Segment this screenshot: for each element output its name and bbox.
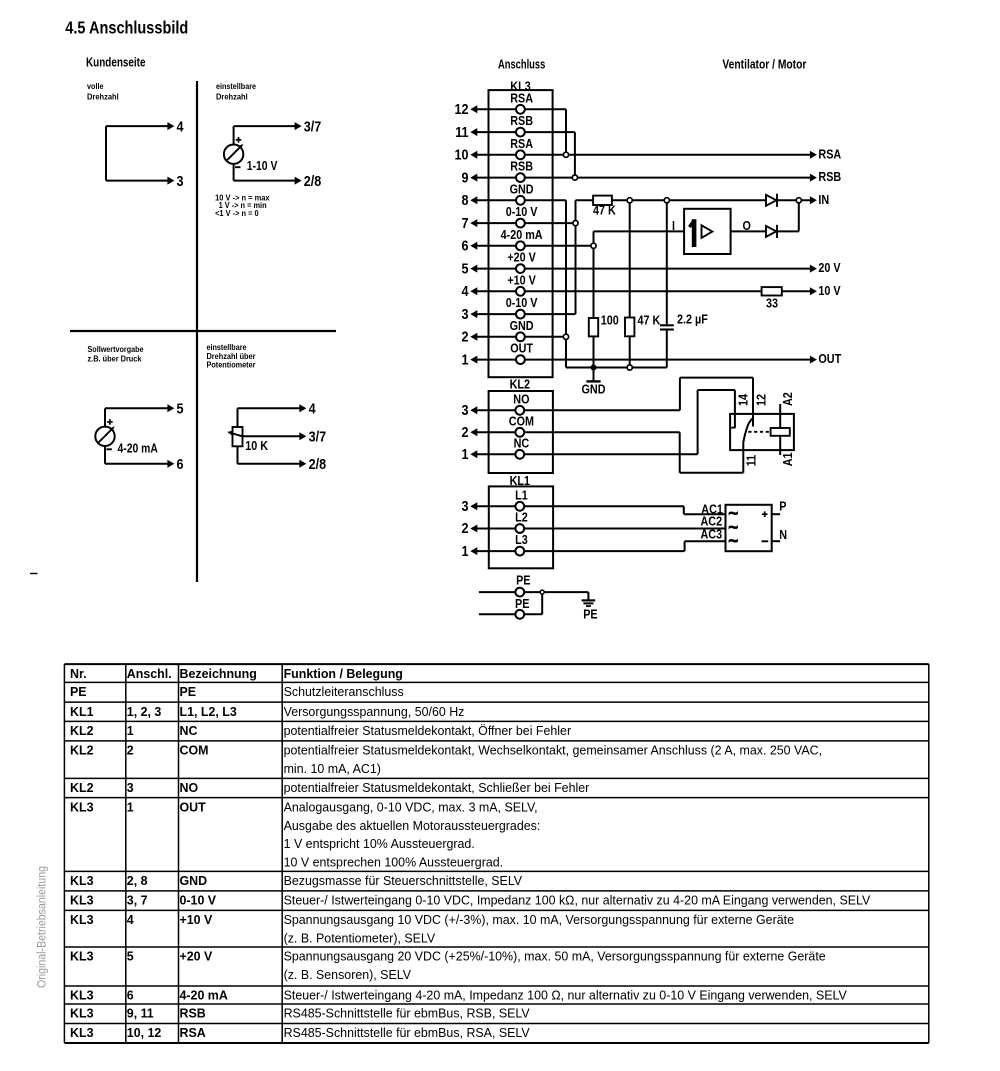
svg-text:Ausgabe des aktuellen Motoraus: Ausgabe des aktuellen Motoraussteuergrad… — [284, 818, 541, 833]
svg-text:+10 V: +10 V — [180, 912, 213, 927]
svg-text:+20 V: +20 V — [507, 250, 536, 265]
svg-text:4: 4 — [177, 118, 185, 135]
svg-text:3: 3 — [462, 402, 469, 419]
svg-text:10, 12: 10, 12 — [127, 1025, 162, 1040]
svg-text:2, 8: 2, 8 — [127, 873, 148, 888]
svg-text:KL3: KL3 — [70, 988, 94, 1003]
svg-text:4: 4 — [309, 401, 317, 418]
svg-text:3/7: 3/7 — [304, 118, 322, 135]
svg-text:KL3: KL3 — [510, 78, 530, 93]
svg-text:5: 5 — [177, 401, 184, 418]
svg-text:GND: GND — [510, 181, 534, 196]
svg-text:1: 1 — [462, 543, 469, 560]
svg-text:potentialfreier Statusmeldekon: potentialfreier Statusmeldekontakt, Wech… — [284, 743, 823, 758]
svg-text:KL2: KL2 — [510, 377, 530, 392]
svg-text:RSB: RSB — [180, 1006, 206, 1021]
svg-text:Spannungsausgang 10 VDC (+/-3%: Spannungsausgang 10 VDC (+/-3%), max. 10… — [284, 912, 794, 927]
svg-text:RSB: RSB — [510, 113, 533, 128]
svg-text:(z. B. Sensoren), SELV: (z. B. Sensoren), SELV — [284, 967, 412, 982]
svg-text:5: 5 — [127, 949, 134, 964]
svg-text:12: 12 — [455, 101, 469, 118]
svg-text:0-10 V: 0-10 V — [180, 893, 217, 908]
svg-text:Drehzahl: Drehzahl — [87, 91, 119, 101]
svg-text:1: 1 — [127, 723, 134, 738]
svg-text:Potentiometer: Potentiometer — [207, 360, 257, 370]
svg-text:9, 11: 9, 11 — [127, 1006, 154, 1021]
svg-text:11: 11 — [455, 124, 468, 141]
svg-text:1-10 V: 1-10 V — [247, 159, 278, 173]
svg-text:L1, L2, L3: L1, L2, L3 — [180, 704, 237, 719]
svg-text:potentialfreier Statusmeldekon: potentialfreier Statusmeldekontakt, Öffn… — [284, 723, 572, 738]
svg-text:KL2: KL2 — [70, 743, 94, 758]
svg-text:RS485-Schnittstelle für ebmBus: RS485-Schnittstelle für ebmBus, RSB, SEL… — [284, 1006, 530, 1021]
svg-text:RSB: RSB — [818, 169, 841, 184]
svg-text:4-20 mA: 4-20 mA — [118, 442, 158, 456]
svg-text:NC: NC — [180, 723, 198, 738]
svg-text:RS485-Schnittstelle für ebmBus: RS485-Schnittstelle für ebmBus, RSA, SEL… — [284, 1025, 530, 1040]
svg-text:Sollwertvorgabe: Sollwertvorgabe — [88, 344, 144, 354]
svg-text:COM: COM — [180, 743, 209, 758]
svg-text:4.5 Anschlussbild: 4.5 Anschlussbild — [65, 18, 188, 38]
svg-text:4-20 mA: 4-20 mA — [180, 988, 229, 1003]
svg-text:PE: PE — [516, 573, 531, 588]
svg-text:3: 3 — [127, 780, 134, 795]
svg-text:6: 6 — [462, 238, 469, 255]
svg-text:1 V entspricht 10% Aussteuergr: 1 V entspricht 10% Aussteuergrad. — [284, 836, 475, 851]
svg-text:0-10 V: 0-10 V — [506, 295, 538, 310]
svg-text:OUT: OUT — [510, 341, 533, 356]
svg-text:P: P — [779, 498, 786, 513]
svg-text:10: 10 — [455, 147, 469, 164]
svg-text:RSB: RSB — [510, 159, 533, 174]
svg-text:5: 5 — [462, 260, 469, 277]
svg-text:KL1: KL1 — [70, 704, 94, 719]
svg-text:KL3: KL3 — [70, 1006, 94, 1021]
svg-text:2: 2 — [462, 520, 469, 537]
svg-text:10 V entsprechen 100% Aussteue: 10 V entsprechen 100% Aussteuergrad. — [284, 855, 504, 870]
svg-text:1, 2, 3: 1, 2, 3 — [127, 704, 162, 719]
svg-text:Nr.: Nr. — [70, 666, 87, 681]
svg-text:33: 33 — [766, 296, 778, 311]
svg-text:2/8: 2/8 — [309, 456, 327, 473]
svg-text:3: 3 — [462, 498, 469, 515]
svg-text:O: O — [743, 218, 751, 233]
svg-text:Original-Betriebsanleitung: Original-Betriebsanleitung — [36, 866, 48, 988]
svg-text:L2: L2 — [515, 510, 528, 525]
svg-text:einstellbare: einstellbare — [216, 81, 256, 91]
svg-text:9: 9 — [462, 169, 469, 186]
svg-text:4: 4 — [462, 283, 470, 300]
svg-text:I: I — [672, 218, 675, 233]
svg-text:KL2: KL2 — [70, 723, 94, 738]
svg-text:Bezugsmasse für Steuerschnitts: Bezugsmasse für Steuerschnittstelle, SEL… — [284, 873, 523, 888]
svg-text:A2: A2 — [780, 392, 795, 406]
svg-text:KL3: KL3 — [70, 912, 94, 927]
svg-text:<1 V -> n = 0: <1 V -> n = 0 — [215, 208, 259, 218]
svg-text:potentialfreier Statusmeldekon: potentialfreier Statusmeldekontakt, Schl… — [284, 780, 590, 795]
svg-text:Spannungsausgang 20 VDC (+25%/: Spannungsausgang 20 VDC (+25%/-10%), max… — [284, 949, 826, 964]
svg-text:2: 2 — [462, 329, 469, 346]
svg-text:20 V: 20 V — [818, 260, 840, 275]
svg-text:Anschluss: Anschluss — [498, 57, 545, 71]
svg-text:(z. B. Potentiometer), SELV: (z. B. Potentiometer), SELV — [284, 931, 436, 946]
svg-text:Analogausgang, 0-10 VDC, max.: Analogausgang, 0-10 VDC, max. 3 mA, SELV… — [284, 799, 538, 814]
svg-text:11: 11 — [743, 455, 758, 466]
svg-text:Drehzahl: Drehzahl — [216, 91, 248, 101]
svg-text:OUT: OUT — [180, 799, 206, 814]
svg-text:3, 7: 3, 7 — [127, 893, 148, 908]
svg-text:Funktion / Belegung: Funktion / Belegung — [284, 666, 403, 681]
svg-text:+20 V: +20 V — [180, 949, 213, 964]
svg-text:GND: GND — [582, 382, 606, 397]
svg-text:NC: NC — [514, 435, 530, 450]
svg-text:1: 1 — [462, 351, 469, 368]
svg-text:47 K: 47 K — [638, 313, 661, 328]
svg-text:NO: NO — [180, 780, 199, 795]
svg-text:Steuer-/ Istwerteingang 0-10 V: Steuer-/ Istwerteingang 0-10 VDC, Impeda… — [284, 893, 871, 908]
svg-text:L3: L3 — [515, 532, 528, 547]
svg-text:PE: PE — [515, 596, 530, 611]
svg-text:Steuer-/ Istwerteingang 4-20 m: Steuer-/ Istwerteingang 4-20 mA, Impedan… — [284, 988, 848, 1003]
svg-text:PE: PE — [180, 684, 197, 699]
svg-text:L1: L1 — [515, 487, 528, 502]
svg-text:Bezeichnung: Bezeichnung — [180, 666, 257, 681]
svg-text:KL3: KL3 — [70, 873, 94, 888]
svg-text:Anschl.: Anschl. — [127, 666, 172, 681]
svg-text:AC3: AC3 — [701, 526, 723, 541]
svg-text:3: 3 — [462, 306, 469, 323]
svg-text:GND: GND — [180, 873, 208, 888]
svg-text:RSA: RSA — [510, 136, 533, 151]
svg-text:Versorgungsspannung, 50/60 Hz: Versorgungsspannung, 50/60 Hz — [284, 704, 465, 719]
svg-text:COM: COM — [509, 413, 534, 428]
svg-text:volle: volle — [87, 81, 104, 91]
svg-text:Kundenseite: Kundenseite — [86, 56, 146, 70]
svg-text:2.2 µF: 2.2 µF — [677, 312, 708, 327]
svg-text:KL3: KL3 — [70, 893, 94, 908]
svg-text:4-20 mA: 4-20 mA — [501, 227, 544, 242]
svg-text:z.B. über Druck: z.B. über Druck — [88, 354, 142, 364]
svg-text:KL3: KL3 — [70, 799, 94, 814]
svg-text:N: N — [779, 527, 787, 542]
svg-text:RSA: RSA — [818, 146, 841, 161]
svg-text:PE: PE — [583, 606, 598, 621]
svg-text:IN: IN — [818, 192, 829, 207]
svg-text:+10 V: +10 V — [507, 272, 536, 287]
svg-text:KL3: KL3 — [70, 1025, 94, 1040]
svg-text:3/7: 3/7 — [309, 429, 327, 446]
svg-text:3: 3 — [177, 173, 184, 190]
svg-text:Schutzleiteranschluss: Schutzleiteranschluss — [284, 684, 405, 699]
svg-text:2: 2 — [127, 743, 134, 758]
svg-text:14: 14 — [736, 393, 751, 406]
svg-text:6: 6 — [127, 988, 134, 1003]
svg-text:OUT: OUT — [818, 351, 841, 366]
svg-text:GND: GND — [510, 318, 534, 333]
svg-text:2: 2 — [462, 424, 469, 441]
svg-text:7: 7 — [462, 215, 469, 232]
svg-text:10 K: 10 K — [245, 438, 268, 453]
svg-text:4: 4 — [127, 912, 135, 927]
svg-text:100: 100 — [601, 313, 619, 328]
svg-text:~: ~ — [729, 533, 739, 550]
svg-text:KL3: KL3 — [70, 949, 94, 964]
svg-text:6: 6 — [177, 456, 184, 473]
svg-text:0-10 V: 0-10 V — [506, 204, 538, 219]
svg-text:KL1: KL1 — [510, 473, 530, 488]
svg-text:12: 12 — [753, 394, 768, 406]
svg-text:min. 10 mA, AC1): min. 10 mA, AC1) — [284, 761, 381, 776]
svg-text:PE: PE — [70, 684, 87, 699]
svg-text:2/8: 2/8 — [304, 173, 322, 190]
svg-text:A1: A1 — [780, 453, 795, 467]
svg-text:1: 1 — [127, 799, 134, 814]
svg-text:KL2: KL2 — [70, 780, 94, 795]
svg-text:RSA: RSA — [180, 1025, 207, 1040]
svg-text:NO: NO — [513, 391, 529, 406]
svg-text:47 K: 47 K — [593, 202, 616, 217]
svg-text:10 V: 10 V — [818, 283, 840, 298]
svg-text:8: 8 — [462, 192, 469, 209]
svg-text:1: 1 — [462, 446, 469, 463]
svg-text:Ventilator / Motor: Ventilator / Motor — [722, 57, 806, 71]
